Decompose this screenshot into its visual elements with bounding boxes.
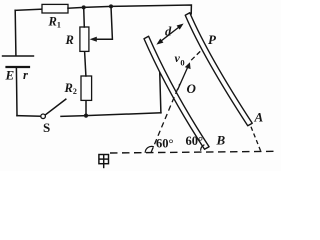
angle arc at left 60 vertex — [145, 146, 154, 152]
angle arc at B vertex — [201, 145, 205, 151]
v0 velocity arrow at O — [178, 62, 191, 90]
wire R2 bottom lead — [85, 100, 87, 115]
wire R2 top to R bottom — [85, 51, 86, 76]
svg-text:r: r — [23, 68, 28, 82]
wire top rail right segment to plate P — [111, 5, 191, 14]
wire riser up to left plate at O side — [160, 68, 161, 113]
wire bottom rail to incline riser — [86, 113, 161, 116]
switch S pivot circle — [41, 114, 46, 119]
rheostat R body — [80, 27, 89, 51]
resistor R1 — [42, 4, 68, 13]
wire top rail middle segment — [68, 6, 111, 8]
wire top-left vertical (battery + to top rail) — [14, 10, 17, 54]
dashed continuation above v0 arrow — [191, 51, 201, 61]
battery E r short plate — [7, 66, 30, 68]
left plate (rail OB) — [144, 36, 209, 149]
rheostat R wiper wire — [96, 6, 113, 39]
node junction dot at R top — [82, 5, 86, 9]
d gap double arrow — [156, 24, 183, 45]
node junction dot at wiper top — [109, 4, 113, 8]
rheostat R wiper arrowhead — [90, 37, 97, 42]
wire bottom rail from switch to R2 node — [61, 115, 86, 118]
battery E r long plate — [3, 55, 34, 57]
svg-text:A: A — [254, 110, 264, 125]
svg-text:60°: 60° — [156, 136, 174, 150]
svg-text:d: d — [165, 25, 172, 39]
dashed ground line — [110, 151, 277, 153]
dashed 60-degree line from ground through O — [151, 84, 180, 153]
svg-text:P: P — [208, 32, 217, 47]
svg-text:O: O — [187, 81, 197, 96]
dashed extension of right plate to ground at A — [251, 127, 261, 152]
right plate (rail PA) — [185, 13, 252, 126]
wire top rail left segment — [15, 9, 42, 10]
svg-text:60°: 60° — [186, 134, 204, 148]
switch S blade — [46, 99, 66, 114]
resistor R2 — [81, 76, 92, 100]
node junction dot bottom (R2 bottom) — [84, 114, 88, 118]
label jia (Chinese caption) drawn as strokes — [99, 155, 109, 169]
svg-text:R: R — [65, 33, 74, 47]
svg-text:B: B — [216, 132, 226, 147]
svg-text:E: E — [5, 68, 15, 83]
svg-text:S: S — [43, 120, 50, 135]
wire R top lead — [83, 7, 86, 27]
wire bottom rail to switch — [17, 115, 40, 118]
wire battery negative down to bottom rail — [15, 68, 18, 116]
